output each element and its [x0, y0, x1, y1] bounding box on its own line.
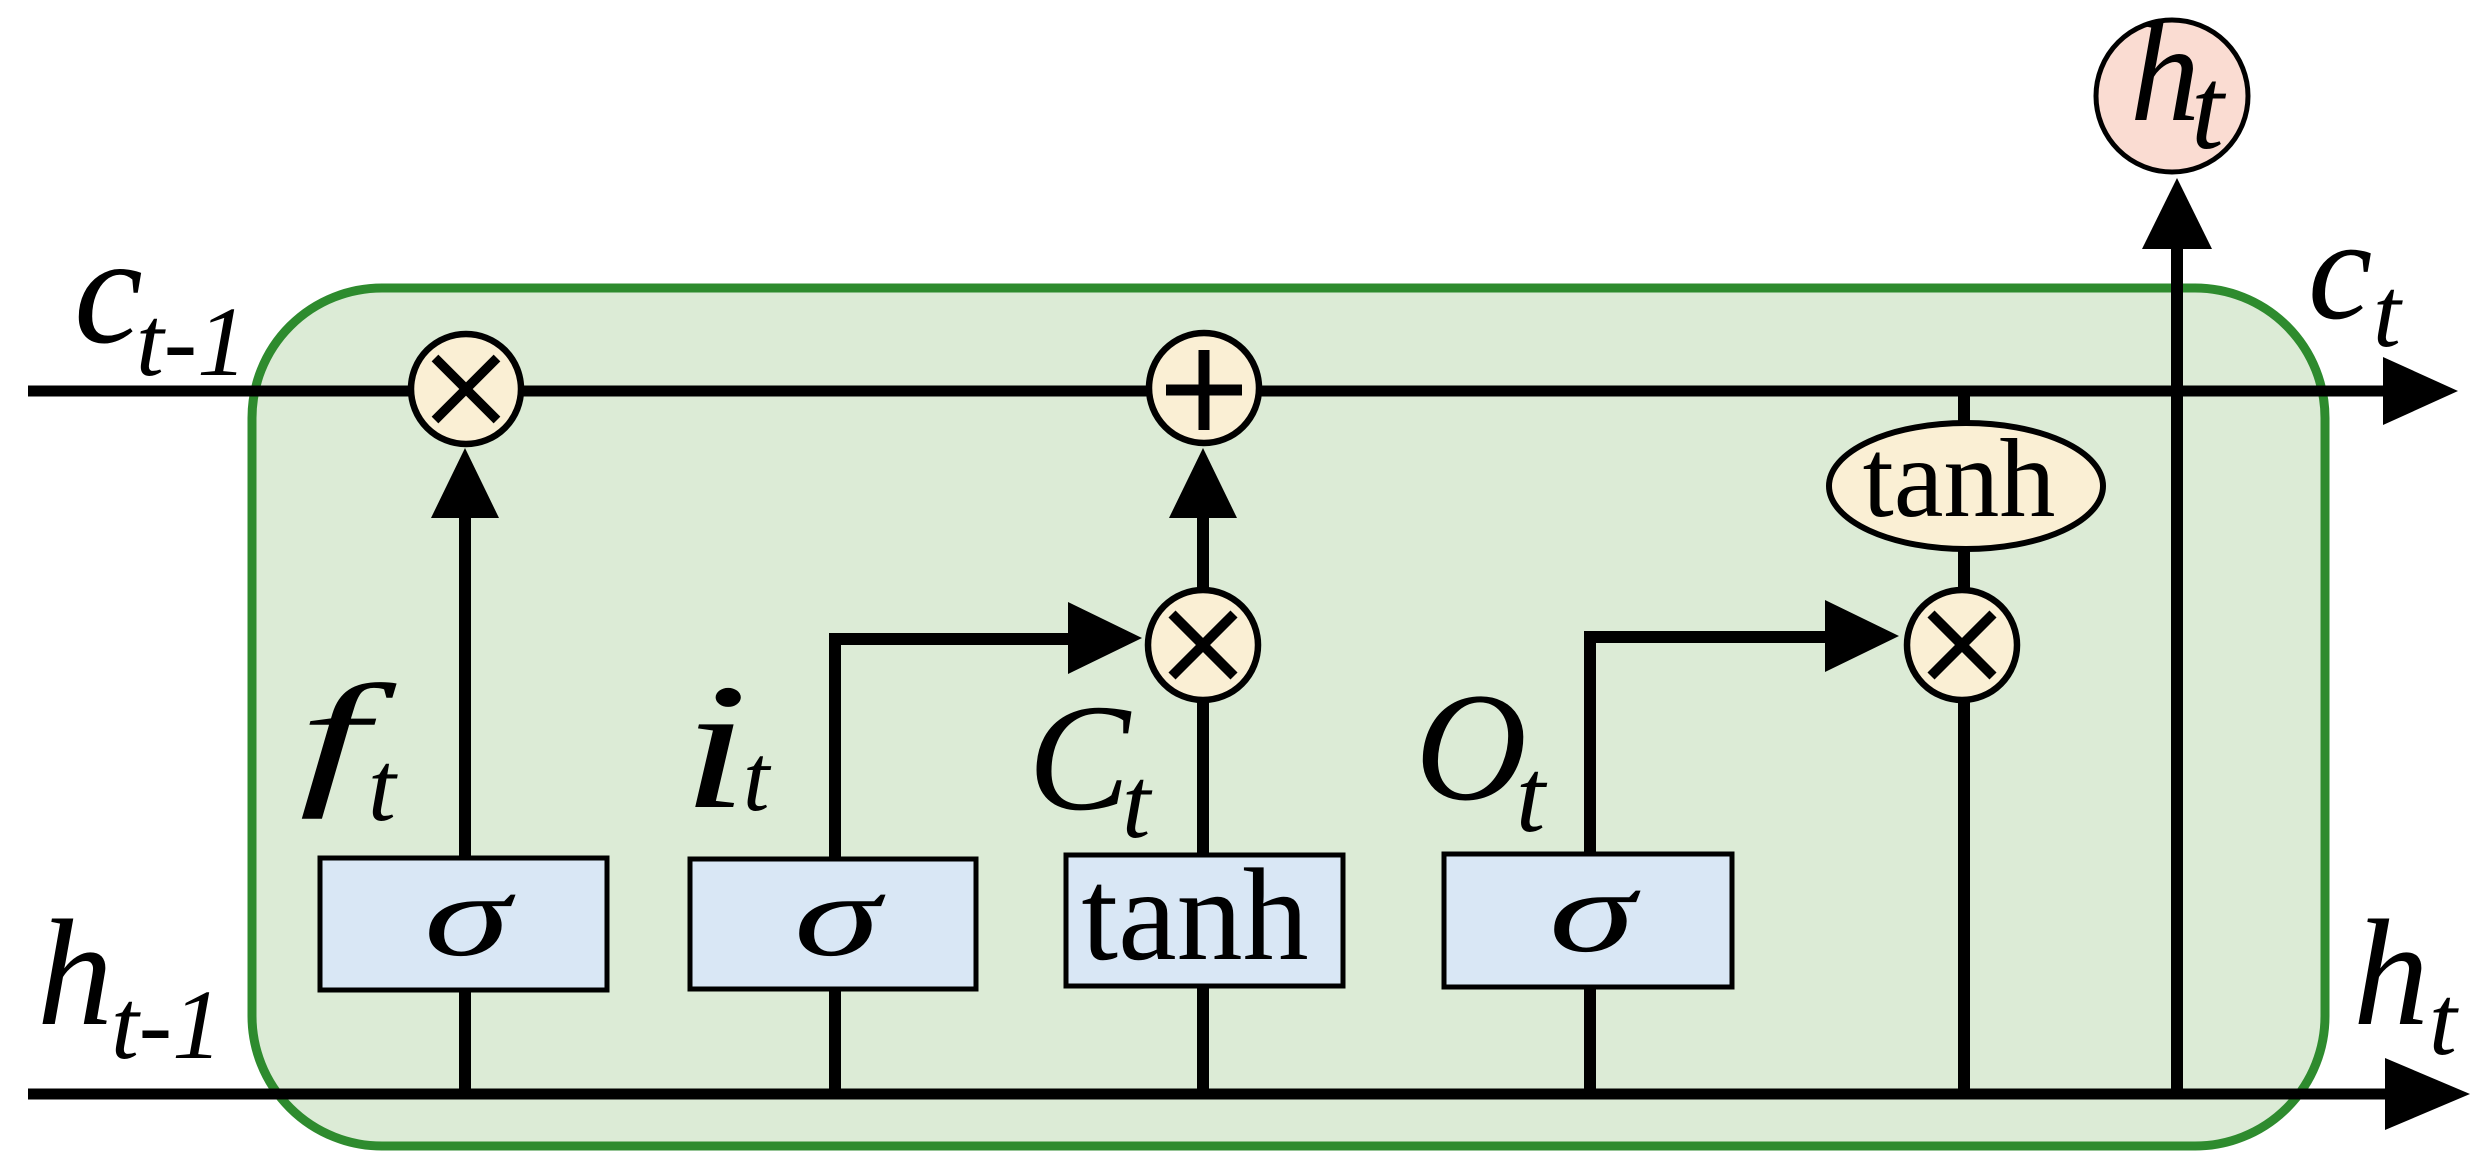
h_t output circle (pink) [2096, 20, 2248, 172]
arrowhead c_t output [2383, 357, 2458, 425]
svg-text:h: h [2130, 0, 2200, 151]
svg-text:σ: σ [424, 852, 516, 981]
arrowhead h_t output [2385, 1058, 2470, 1130]
sigma box 2 (input gate) [690, 859, 976, 989]
LSTM cell body (green rounded rectangle) [252, 288, 2325, 1146]
multiply node 2 (input x candidate) [1148, 590, 1258, 700]
sigma box 3 (output gate) [1444, 854, 1732, 987]
arrowhead into multiply node 3 [1825, 600, 1899, 672]
svg-text:tanh: tanh [1081, 841, 1308, 988]
wire: below sigma3 box to h line [1584, 987, 1596, 1094]
svg-text:t: t [1122, 747, 1153, 860]
wire: cell-state line c (top horizontal) [28, 386, 2395, 397]
wire: below tanh box to h line [1197, 986, 1209, 1094]
wire: tanh branch from c line down through multiply node 3 to h line [1958, 391, 1970, 1094]
svg-text:h: h [2353, 889, 2429, 1057]
svg-text:t: t [743, 725, 772, 831]
svg-text:tanh: tanh [1863, 417, 2056, 541]
svg-text:t: t [1516, 737, 1548, 854]
svg-text:O: O [1415, 661, 1527, 833]
svg-text:t-1: t-1 [111, 969, 222, 1080]
arrowhead into multiply node 1 [431, 448, 499, 518]
wire: below sigma1 box to h line [459, 988, 471, 1094]
multiply node 1 (forget gate) [411, 334, 521, 444]
multiply node 3 (output gate) [1907, 590, 2017, 700]
svg-text:t: t [368, 731, 398, 842]
svg-text:σ: σ [794, 852, 886, 981]
svg-text:h: h [37, 889, 113, 1057]
plus node (cell state update) [1149, 333, 1259, 443]
svg-text:C: C [1028, 674, 1132, 843]
svg-text:c: c [2308, 190, 2372, 350]
sigma box 1 (forget gate) [320, 858, 607, 990]
arrowhead into h_t circle [2142, 178, 2212, 249]
wire: output gate riser from sigma3 box up then right [1590, 637, 1825, 854]
svg-text:t: t [2191, 43, 2227, 174]
wire: input gate riser from sigma2 box up then right [835, 639, 1070, 860]
svg-text:t-1: t-1 [136, 286, 247, 397]
svg-text:t: t [2373, 257, 2403, 368]
wire: output riser to h_t circle [2171, 245, 2183, 1094]
svg-text:c: c [74, 204, 143, 376]
arrowhead into multiply node 2 [1068, 602, 1142, 674]
tanh box (candidate) [1066, 855, 1343, 986]
arrowhead into plus node [1169, 448, 1237, 518]
wire: hidden-state line h (bottom horizontal) [28, 1089, 2400, 1100]
wire: forget gate riser (box sigma1 top to multiply node) [459, 512, 471, 858]
svg-text:σ: σ [1549, 848, 1641, 977]
wire: candidate path vertical (plus node down through multiply node 2 to tanh box) [1197, 512, 1209, 855]
svg-text:i: i [682, 647, 748, 846]
wire: below sigma2 box to h line [829, 988, 841, 1094]
svg-text:t: t [2429, 965, 2459, 1076]
tanh ellipse node [1829, 423, 2103, 549]
